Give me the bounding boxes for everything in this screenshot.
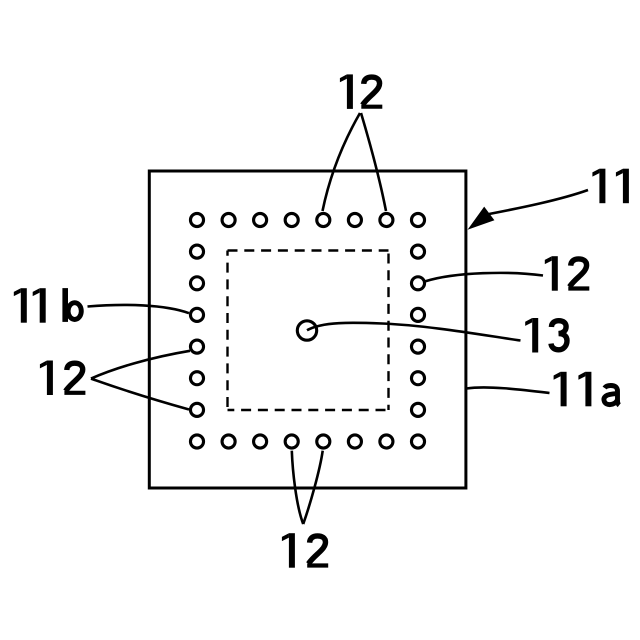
center pad 13 [297,321,316,340]
pad 12 (left column, row 4) [190,308,203,321]
pad 12 (right column, row 2) [411,245,424,258]
die attach area (dashed square) - bottom edge [228,409,389,411]
pad 12 (right column, row 4) [411,308,424,321]
label 12 (top) [340,74,382,109]
label 11b (left) [14,288,82,323]
die attach area (dashed square) - right edge [387,251,389,411]
pad 12 (bottom row, col 7) [380,435,393,448]
leader line for label 11 [489,190,588,214]
pad 12 (top row, col 1) [190,213,203,226]
leader from label 11a to package side surface [467,387,550,393]
pad 12 (right column, row 6) [411,372,424,385]
label 12 (right) [545,256,590,291]
pad 12 (top row, col 6) [348,213,361,226]
label 13 (right) [525,318,567,353]
pad 12 (bottom row, col 6) [348,435,361,448]
pad 12 (right column, row 7) [411,403,424,416]
leader from bottom label 12 to pad (323,441) [303,451,323,524]
pad 12 (left column, row 3) [190,277,203,290]
pad 12 (bottom row, col 2) [222,435,235,448]
leader from top label 12 to pad (323,220) [323,113,361,211]
pad 12 (bottom row, col 3) [254,435,267,448]
arrowhead pointing to package edge 11 [470,208,494,228]
leader from left label 12 to pad (197,410) [91,379,189,410]
pad 12 (bottom row, col 5) [317,435,330,448]
pad 12 (left column, row 2) [190,245,203,258]
leader from right label 12 to pad (418,283) [426,273,544,281]
package body outline 11 (solid square) [149,171,466,488]
pad 12 (top row, col 3) [254,213,267,226]
label 11a (bottom right) [554,372,620,407]
leader from label 13 to center pad [307,323,521,341]
pad 12 (right column, row 5) [411,340,424,353]
die attach area (dashed square) - left edge [226,251,228,411]
pad 12 (top row, col 2) [222,213,235,226]
pad 12 (bottom row, col 8) [411,435,424,448]
label 12 (bottom) [282,533,328,568]
pad 12 (left column, row 7) [190,403,203,416]
die attach area (dashed square) - top edge [228,249,389,251]
leader from label 11b to pad (197,315) [88,305,190,313]
pad 12 (left column, row 6) [190,372,203,385]
pad 12 (bottom row, col 1) [190,435,203,448]
label 12 (left) [40,361,86,396]
leader from bottom label 12 to pad (292,441) [292,451,303,524]
pad 12 (right column, row 3) [411,277,424,290]
leader from top label 12 to pad (386,220) [361,113,386,211]
label 11 (top right) [592,169,629,204]
pad 12 (top row, col 7) [380,213,393,226]
leader from left label 12 to pad (197,347) [91,351,190,379]
pad 12 (top row, col 4) [285,213,298,226]
pad 12 (top row, col 5) [317,213,330,226]
pad 12 (top row, col 8) [411,213,424,226]
pad 12 (bottom row, col 4) [285,435,298,448]
pad 12 (left column, row 5) [190,340,203,353]
